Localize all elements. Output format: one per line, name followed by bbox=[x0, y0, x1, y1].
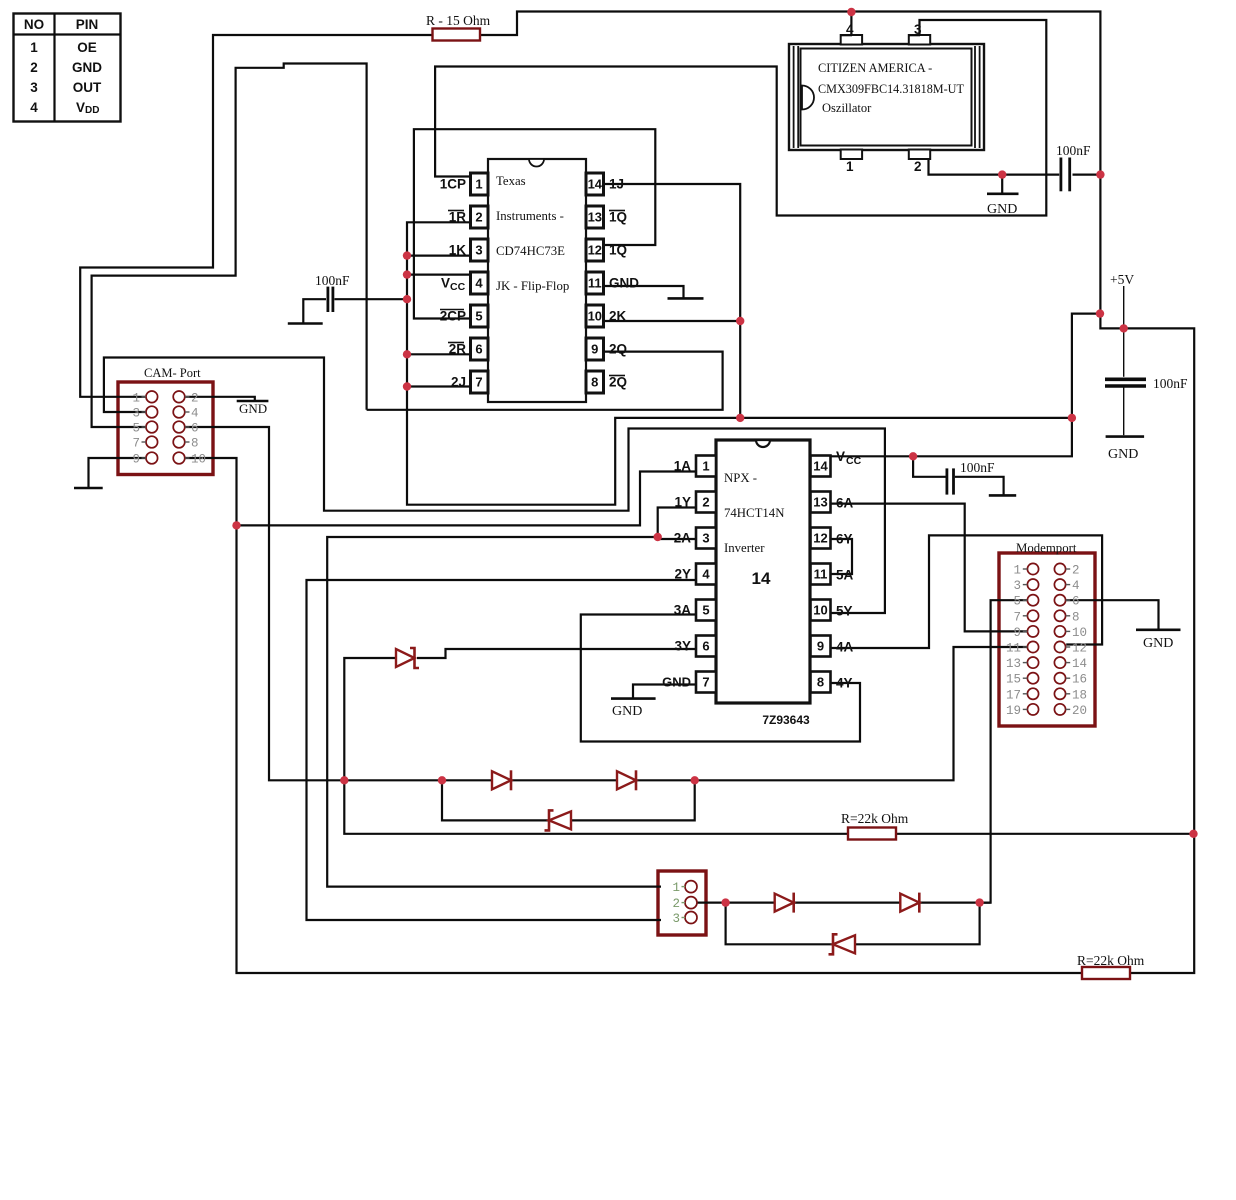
svg-text:2: 2 bbox=[672, 897, 680, 911]
svg-text:6A: 6A bbox=[836, 496, 854, 511]
svg-text:9: 9 bbox=[1013, 626, 1021, 640]
svg-text:7: 7 bbox=[475, 375, 482, 390]
svg-text:+5V: +5V bbox=[1110, 272, 1134, 287]
svg-text:13: 13 bbox=[588, 210, 602, 225]
svg-text:2Y: 2Y bbox=[674, 567, 691, 582]
svg-text:3Y: 3Y bbox=[674, 639, 691, 654]
svg-text:JK - Flip-Flop: JK - Flip-Flop bbox=[496, 279, 569, 293]
svg-text:14: 14 bbox=[752, 569, 771, 588]
svg-text:1: 1 bbox=[475, 177, 482, 192]
svg-text:8: 8 bbox=[1072, 610, 1080, 624]
svg-text:14: 14 bbox=[813, 459, 828, 474]
svg-text:5A: 5A bbox=[836, 568, 854, 583]
svg-text:7: 7 bbox=[132, 437, 140, 451]
svg-text:6: 6 bbox=[1072, 595, 1080, 609]
svg-text:CAM- Port: CAM- Port bbox=[144, 366, 201, 380]
svg-text:18: 18 bbox=[1072, 688, 1087, 702]
svg-text:Oszillator: Oszillator bbox=[822, 101, 872, 115]
svg-text:2: 2 bbox=[30, 60, 38, 75]
svg-text:NPX -: NPX - bbox=[724, 471, 757, 485]
svg-text:10: 10 bbox=[191, 453, 206, 467]
svg-text:17: 17 bbox=[1006, 688, 1021, 702]
svg-text:8: 8 bbox=[591, 375, 598, 390]
svg-text:4: 4 bbox=[30, 100, 38, 115]
svg-text:14: 14 bbox=[1072, 657, 1087, 671]
svg-text:4Y: 4Y bbox=[836, 676, 853, 691]
svg-text:GND: GND bbox=[609, 276, 639, 291]
svg-text:OUT: OUT bbox=[73, 80, 102, 95]
svg-text:4: 4 bbox=[1072, 579, 1080, 593]
svg-text:100nF: 100nF bbox=[1056, 143, 1091, 158]
svg-text:1J: 1J bbox=[609, 177, 624, 192]
svg-text:R=22k Ohm: R=22k Ohm bbox=[841, 811, 909, 826]
svg-text:11: 11 bbox=[814, 567, 828, 582]
svg-text:1K: 1K bbox=[449, 243, 467, 258]
svg-text:2CP: 2CP bbox=[440, 309, 466, 324]
svg-text:R - 15 Ohm: R - 15 Ohm bbox=[426, 13, 491, 28]
svg-text:V: V bbox=[836, 449, 845, 464]
svg-text:NO: NO bbox=[24, 17, 44, 32]
svg-text:2K: 2K bbox=[609, 309, 627, 324]
svg-text:2: 2 bbox=[191, 391, 199, 405]
svg-text:CC: CC bbox=[450, 281, 466, 293]
svg-text:GND: GND bbox=[239, 401, 267, 416]
svg-text:10: 10 bbox=[588, 309, 602, 324]
svg-text:CMX309FBC14.31818M-UT: CMX309FBC14.31818M-UT bbox=[818, 82, 964, 96]
svg-text:GND: GND bbox=[612, 704, 642, 719]
svg-text:3: 3 bbox=[1013, 579, 1021, 593]
svg-text:V: V bbox=[76, 100, 85, 115]
svg-text:6: 6 bbox=[475, 342, 482, 357]
svg-text:GND: GND bbox=[72, 60, 102, 75]
svg-text:7Z93643: 7Z93643 bbox=[762, 713, 810, 727]
svg-text:3A: 3A bbox=[674, 603, 692, 618]
svg-text:OE: OE bbox=[77, 40, 97, 55]
svg-text:10: 10 bbox=[813, 603, 827, 618]
svg-text:5: 5 bbox=[132, 422, 140, 436]
svg-text:100nF: 100nF bbox=[960, 460, 995, 475]
svg-text:11: 11 bbox=[588, 276, 602, 291]
svg-text:4: 4 bbox=[475, 276, 483, 291]
svg-text:1CP: 1CP bbox=[440, 177, 466, 192]
svg-text:GND: GND bbox=[1108, 447, 1138, 462]
svg-text:7: 7 bbox=[702, 675, 709, 690]
svg-text:20: 20 bbox=[1072, 704, 1087, 718]
svg-text:1Y: 1Y bbox=[674, 495, 691, 510]
svg-text:2: 2 bbox=[702, 495, 709, 510]
svg-text:4A: 4A bbox=[836, 640, 854, 655]
svg-text:100nF: 100nF bbox=[315, 273, 350, 288]
svg-text:1: 1 bbox=[702, 459, 709, 474]
svg-text:11: 11 bbox=[1006, 642, 1021, 656]
svg-text:2R: 2R bbox=[449, 342, 467, 357]
svg-text:GND: GND bbox=[1143, 636, 1173, 651]
svg-text:1: 1 bbox=[1013, 564, 1021, 578]
svg-text:3: 3 bbox=[702, 531, 709, 546]
svg-text:2: 2 bbox=[914, 159, 922, 174]
svg-text:12: 12 bbox=[588, 243, 602, 258]
svg-text:1: 1 bbox=[132, 391, 140, 405]
svg-text:8: 8 bbox=[817, 675, 824, 690]
svg-text:19: 19 bbox=[1006, 704, 1021, 718]
svg-text:1: 1 bbox=[672, 881, 680, 895]
svg-text:1: 1 bbox=[30, 40, 38, 55]
svg-text:CC: CC bbox=[846, 455, 862, 467]
svg-text:6Y: 6Y bbox=[836, 532, 853, 547]
svg-text:74HCT14N: 74HCT14N bbox=[724, 506, 784, 520]
svg-text:1Q: 1Q bbox=[609, 243, 627, 258]
svg-text:GND: GND bbox=[662, 675, 691, 690]
svg-text:3: 3 bbox=[132, 407, 140, 421]
svg-text:1R: 1R bbox=[449, 210, 467, 225]
svg-text:5: 5 bbox=[702, 603, 709, 618]
svg-text:15: 15 bbox=[1006, 673, 1021, 687]
svg-text:100nF: 100nF bbox=[1153, 376, 1188, 391]
svg-text:9: 9 bbox=[817, 639, 824, 654]
svg-text:5: 5 bbox=[475, 309, 482, 324]
svg-text:13: 13 bbox=[1006, 657, 1021, 671]
svg-text:9: 9 bbox=[591, 342, 598, 357]
svg-text:6: 6 bbox=[702, 639, 709, 654]
svg-text:PIN: PIN bbox=[76, 17, 99, 32]
svg-text:16: 16 bbox=[1072, 673, 1087, 687]
svg-text:1A: 1A bbox=[674, 459, 692, 474]
svg-text:Inverter: Inverter bbox=[724, 541, 765, 555]
svg-text:4: 4 bbox=[191, 407, 199, 421]
svg-text:10: 10 bbox=[1072, 626, 1087, 640]
svg-text:3: 3 bbox=[672, 912, 680, 926]
svg-text:2J: 2J bbox=[451, 375, 466, 390]
svg-text:2A: 2A bbox=[674, 531, 692, 546]
svg-text:2Q: 2Q bbox=[609, 342, 627, 357]
svg-text:CITIZEN AMERICA -: CITIZEN AMERICA - bbox=[818, 61, 932, 75]
svg-text:9: 9 bbox=[132, 453, 140, 467]
svg-text:CD74HC73E: CD74HC73E bbox=[496, 244, 565, 258]
svg-text:2Q: 2Q bbox=[609, 375, 627, 390]
svg-text:DD: DD bbox=[85, 105, 99, 116]
svg-text:V: V bbox=[441, 276, 450, 291]
svg-text:1: 1 bbox=[846, 159, 854, 174]
svg-text:12: 12 bbox=[1072, 642, 1087, 656]
svg-text:6: 6 bbox=[191, 422, 199, 436]
svg-text:3: 3 bbox=[30, 80, 38, 95]
svg-text:13: 13 bbox=[813, 495, 827, 510]
svg-text:Instruments -: Instruments - bbox=[496, 209, 564, 223]
svg-text:5: 5 bbox=[1013, 595, 1021, 609]
svg-text:5Y: 5Y bbox=[836, 604, 853, 619]
svg-text:12: 12 bbox=[813, 531, 827, 546]
svg-text:1Q: 1Q bbox=[609, 210, 627, 225]
svg-text:Texas: Texas bbox=[496, 174, 526, 188]
svg-text:2: 2 bbox=[1072, 564, 1080, 578]
svg-text:8: 8 bbox=[191, 437, 199, 451]
svg-text:7: 7 bbox=[1013, 610, 1021, 624]
svg-text:3: 3 bbox=[475, 243, 482, 258]
svg-text:2: 2 bbox=[475, 210, 482, 225]
svg-text:Modemport: Modemport bbox=[1016, 541, 1077, 555]
svg-text:4: 4 bbox=[702, 567, 710, 582]
svg-text:14: 14 bbox=[588, 177, 603, 192]
svg-text:GND: GND bbox=[987, 202, 1017, 217]
svg-text:R=22k Ohm: R=22k Ohm bbox=[1077, 953, 1145, 968]
